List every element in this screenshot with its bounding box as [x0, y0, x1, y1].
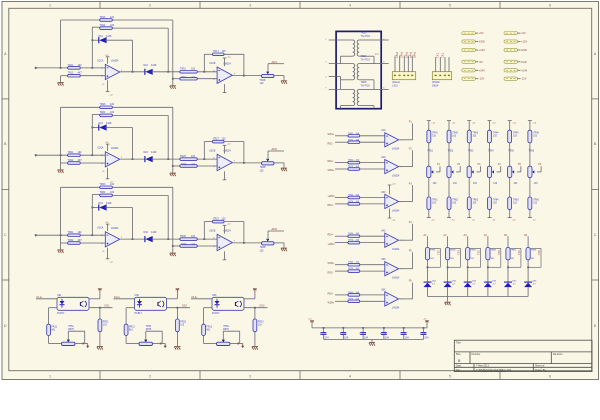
svg-text:F:\8路数据采集\转速测量仪.Ddb: F:\8路数据采集\转速测量仪.Ddb [476, 368, 512, 372]
ground [174, 346, 180, 348]
wire [222, 331, 224, 339]
svg-text:AD3: AD3 [272, 227, 278, 231]
svg-text:102: 102 [260, 169, 265, 172]
resistor PR12 [124, 324, 128, 335]
svg-text:A3: A3 [464, 233, 468, 237]
wire [509, 178, 511, 197]
wire [335, 294, 348, 296]
wire [360, 141, 385, 143]
wire [232, 242, 261, 244]
svg-text:D31: D31 [99, 202, 104, 205]
diode D86 [524, 281, 532, 283]
connector J1 pin 3 [403, 56, 405, 72]
svg-text:4K7: 4K7 [78, 159, 83, 162]
svg-text:4148: 4148 [151, 231, 157, 234]
svg-text:TR25: TR25 [180, 155, 187, 158]
resistor TR84 [486, 248, 490, 260]
power port -5V [462, 60, 476, 63]
wire [153, 343, 166, 345]
resistor TR33 [100, 186, 113, 189]
power +12V pin [224, 58, 226, 66]
wire [132, 40, 134, 72]
resistor TR16 [180, 77, 198, 80]
wire [360, 270, 385, 272]
wire [412, 283, 414, 299]
wire [197, 71, 217, 73]
wire [373, 80, 375, 90]
wire [105, 39, 132, 41]
svg-text:TP61: TP61 [68, 326, 74, 328]
svg-text:TR55: TR55 [508, 151, 514, 153]
optocoupler U91 phototransistor [85, 301, 87, 307]
svg-text:DL2+: DL2+ [114, 296, 121, 299]
wire [340, 56, 342, 63]
svg-text:C701: C701 [320, 332, 327, 335]
svg-text:-5V: -5V [479, 60, 483, 64]
diode D21 [92, 127, 99, 129]
wire [335, 270, 348, 272]
wire [112, 106, 172, 108]
connector J2 [432, 72, 451, 80]
wire [340, 80, 342, 90]
svg-text:TR16: TR16 [181, 76, 187, 78]
resistor TR62 [348, 161, 360, 164]
wire [254, 332, 256, 347]
svg-text:2: 2 [149, 375, 151, 379]
svg-text:U92: U92 [135, 294, 140, 297]
wire [335, 135, 348, 137]
diode D12 [144, 69, 146, 75]
wire [167, 307, 191, 309]
optocoupler U93 phototransistor [240, 301, 242, 307]
svg-text:B: B [594, 142, 596, 146]
svg-text:+24V: +24V [479, 68, 485, 72]
svg-text:C705: C705 [400, 332, 407, 335]
ground [58, 249, 64, 251]
svg-text:103: 103 [222, 50, 227, 53]
svg-text:U4C: U4C [381, 230, 386, 233]
wire [203, 222, 205, 240]
optocoupler U93 LED [215, 301, 220, 304]
resistor TR66 [348, 294, 360, 297]
wire [173, 245, 180, 247]
svg-text:D21: D21 [99, 122, 104, 125]
resistor PR22 [176, 319, 180, 332]
node [507, 266, 509, 268]
wire [112, 27, 168, 29]
wire [427, 260, 429, 282]
diode D11 [92, 39, 99, 41]
wire [527, 236, 529, 247]
svg-text:RD6-: RD6- [328, 292, 334, 295]
svg-text:331: 331 [517, 250, 521, 255]
svg-text:TR63: TR63 [473, 199, 479, 201]
power -12V pin [389, 209, 391, 218]
svg-text:+5VA: +5VA [521, 68, 527, 72]
capacitor C701 [323, 328, 325, 333]
svg-text:5: 5 [449, 4, 451, 8]
power +5V pin [254, 288, 256, 291]
connector J1 pin 2 [399, 56, 401, 72]
wire [203, 142, 205, 160]
wire [517, 171, 521, 173]
power -12V pin [107, 248, 109, 259]
transformer TR23 pin 4 wire [374, 39, 389, 41]
resistor TR44 [488, 130, 492, 143]
node [487, 266, 489, 268]
wire [447, 287, 449, 297]
svg-text:4K7: 4K7 [78, 239, 83, 242]
ground [281, 80, 287, 82]
node J3C [132, 238, 134, 240]
svg-text:DS2: DS2 [182, 305, 187, 308]
resistor TR43 [467, 130, 471, 143]
power -12V stub [509, 210, 511, 218]
power +12V pin [224, 145, 226, 153]
svg-text:A6: A6 [524, 233, 528, 237]
resistor TR46 [528, 130, 532, 143]
wire [61, 75, 68, 77]
svg-text:PC817: PC817 [57, 312, 65, 315]
wire [335, 168, 348, 170]
wire [80, 154, 105, 156]
svg-text:TP62: TP62 [146, 326, 152, 328]
wire [487, 236, 489, 247]
power +12V pin [389, 185, 391, 194]
node J2F [172, 165, 174, 167]
wire [360, 168, 385, 170]
transformer TR24 pin 1 wire [329, 63, 353, 65]
svg-text:TR85: TR85 [511, 249, 517, 251]
power port -12V [504, 77, 518, 80]
wire [60, 20, 62, 68]
svg-text:LM324: LM324 [111, 227, 119, 230]
resistor TR32 [68, 242, 81, 245]
wire [151, 71, 179, 73]
svg-text:102: 102 [260, 82, 265, 85]
svg-text:TR45: TR45 [513, 133, 519, 135]
power -12V pin [224, 251, 226, 259]
svg-text:WD2+: WD2+ [328, 169, 336, 172]
wire [399, 298, 413, 300]
resistor TR73 [348, 203, 360, 206]
node J1D [167, 71, 169, 73]
svg-text:4148: 4148 [106, 202, 112, 205]
op-amp U6C [385, 292, 399, 306]
wire [61, 186, 100, 188]
transformer TR25 pin 4 wire [374, 88, 389, 90]
node J2C [132, 158, 134, 160]
svg-text:103: 103 [191, 68, 196, 71]
resistor TR36 [180, 245, 198, 248]
svg-text:TR12: TR12 [68, 72, 75, 75]
svg-text:AD2: AD2 [272, 147, 278, 151]
svg-text:U1CA: U1CA [97, 59, 104, 62]
svg-text:R675: R675 [146, 329, 152, 331]
resistor PR11 [47, 324, 51, 335]
resistor TR23 [100, 106, 113, 109]
op-amp U2B [217, 154, 232, 170]
ground [58, 169, 64, 171]
svg-text:DL1+: DL1+ [37, 296, 44, 299]
svg-text:D12: D12 [144, 64, 149, 67]
wire [448, 178, 450, 197]
svg-text:104: 104 [424, 336, 429, 339]
power +5V pin [176, 288, 178, 291]
wire [360, 294, 385, 296]
node J3A [60, 234, 62, 236]
wire [204, 141, 212, 143]
power +12V pin [107, 144, 109, 151]
optocoupler U92 phototransistor [162, 301, 164, 307]
svg-text:PR13: PR13 [206, 327, 212, 329]
power +12V pin [107, 57, 109, 64]
power +12V pin [224, 225, 226, 233]
wire [468, 143, 470, 166]
capacitor C705 [403, 328, 405, 333]
svg-text:TR22: TR22 [68, 159, 75, 162]
resistor TR71 [348, 141, 360, 144]
transformer TR23 pin 1 wire [329, 39, 353, 41]
resistor TR76 [348, 300, 360, 303]
svg-text:104: 104 [344, 336, 349, 339]
resistor PR13 [202, 324, 206, 335]
svg-text:U3CB: U3CB [209, 230, 216, 233]
svg-text:TR43: TR43 [473, 133, 479, 135]
wire [114, 298, 135, 300]
svg-text:TR41: TR41 [432, 133, 438, 135]
capacitor C81 [430, 247, 441, 249]
capacitor C84 [490, 247, 501, 249]
svg-text:WD1+: WD1+ [328, 133, 336, 136]
ground [172, 172, 174, 174]
svg-text:4148: 4148 [106, 122, 112, 125]
wire [335, 162, 348, 164]
svg-text:103: 103 [110, 103, 115, 106]
svg-text:6: 6 [549, 4, 551, 8]
wire [120, 238, 145, 240]
optocoupler U92 LED [137, 301, 142, 304]
svg-text:TR44: TR44 [493, 133, 499, 135]
svg-text:4148: 4148 [151, 64, 157, 67]
svg-text:RD3-: RD3- [328, 204, 334, 207]
svg-text:TR71: TR71 [348, 139, 354, 141]
svg-text:5: 5 [449, 375, 451, 379]
resistor TR82 [446, 248, 450, 260]
resistor TR45 [508, 130, 512, 143]
connector J2 pin 3 [444, 57, 446, 72]
wire [167, 115, 169, 159]
wire [243, 54, 245, 75]
wire [80, 67, 105, 69]
power +5V pin [99, 288, 101, 291]
node J3B [91, 234, 93, 236]
svg-text:+12V: +12V [479, 48, 485, 52]
wire [340, 106, 342, 109]
svg-text:102: 102 [260, 249, 265, 252]
svg-text:Number: Number [472, 353, 481, 356]
svg-text:TR83: TR83 [470, 249, 476, 251]
svg-text:TR33: TR33 [100, 183, 107, 186]
input pin IN1 [36, 67, 68, 69]
svg-text:102: 102 [78, 231, 83, 234]
wire [92, 26, 99, 28]
svg-text:PW4: PW4 [408, 52, 412, 59]
capacitor C82 [450, 247, 461, 249]
svg-text:RD1-: RD1- [328, 142, 334, 145]
wire [427, 236, 429, 247]
wire [176, 332, 178, 347]
wire [399, 139, 413, 141]
wire [239, 331, 241, 343]
node J3G [243, 242, 245, 244]
resistor TR75 [348, 270, 360, 273]
wire [412, 150, 414, 166]
wire [274, 75, 284, 77]
ground [281, 247, 287, 249]
svg-text:331: 331 [477, 250, 481, 255]
node J3F [172, 245, 174, 247]
node [467, 266, 469, 268]
resistor TR11 [68, 67, 81, 70]
wire [399, 201, 413, 203]
svg-text:4148: 4148 [151, 151, 157, 154]
svg-text:103: 103 [110, 111, 115, 114]
wire [145, 331, 147, 339]
svg-text:TR35: TR35 [180, 235, 187, 238]
transformer TR25 secondary winding [357, 89, 359, 105]
svg-text:TR25: TR25 [361, 81, 368, 84]
capacitor C85 [510, 247, 521, 249]
resistor TR14 [100, 27, 113, 30]
resistor TR66 [528, 197, 532, 210]
wire [197, 165, 217, 167]
svg-text:TR24: TR24 [100, 111, 107, 114]
svg-text:TR76: TR76 [348, 298, 354, 300]
optocoupler U91 LED [60, 301, 65, 304]
power +12V stub [428, 121, 430, 131]
wire [335, 235, 348, 237]
wire [105, 127, 132, 129]
wire [489, 143, 491, 166]
wire [360, 203, 385, 205]
svg-text:TR86: TR86 [531, 249, 537, 251]
node [237, 343, 239, 345]
wire [112, 19, 172, 21]
wire [204, 307, 212, 309]
svg-text:TR42: TR42 [452, 133, 458, 135]
transformer TR25 pin 1 wire [329, 88, 353, 90]
power +12V stub [468, 121, 470, 131]
wire [126, 307, 134, 309]
node J3D [167, 238, 169, 240]
wire [507, 236, 509, 247]
node J1B [91, 67, 93, 69]
svg-text:U3CA: U3CA [97, 227, 104, 230]
wire [203, 336, 205, 344]
svg-text:LM324: LM324 [392, 248, 400, 251]
resistor TR15 [180, 71, 198, 74]
svg-text:104: 104 [385, 336, 390, 339]
svg-text:1: 1 [49, 4, 51, 8]
wire [360, 242, 385, 244]
resistor TR65 [348, 263, 360, 266]
power port +12V [504, 40, 518, 43]
wire [399, 268, 413, 270]
svg-text:103: 103 [110, 24, 115, 27]
node [177, 307, 179, 309]
svg-text:Date:: Date: [456, 365, 462, 368]
wire [268, 150, 284, 152]
wire [428, 143, 430, 166]
svg-text:103: 103 [222, 217, 227, 220]
power -12V pin [224, 84, 226, 92]
wire [412, 123, 414, 139]
capacitor C703 [362, 328, 364, 333]
potentiometer TP63 [217, 342, 231, 345]
potentiometer TR53 [467, 166, 471, 177]
svg-text:TR37: TR37 [213, 217, 220, 220]
node [160, 343, 162, 345]
svg-text:-12V: -12V [521, 77, 527, 81]
wire [80, 162, 105, 164]
wire [399, 239, 413, 241]
wire [36, 298, 57, 300]
wire [244, 307, 268, 309]
wire [61, 242, 68, 244]
wire [467, 260, 469, 282]
wire [360, 300, 385, 302]
svg-text:PR12: PR12 [129, 327, 135, 329]
svg-text:TS-4733: TS-4733 [361, 59, 371, 62]
wire [335, 264, 348, 266]
potentiometer TR18 [262, 74, 275, 77]
power +12V stub [489, 121, 491, 131]
transformer pin wire [329, 76, 341, 78]
wire [360, 135, 385, 137]
wire [507, 260, 509, 282]
power port +5VA [504, 69, 518, 72]
node [254, 307, 256, 309]
resistor TR34 [100, 194, 113, 197]
input pin IN3 [36, 234, 68, 236]
power -12V stub [448, 210, 450, 218]
power port +5V [462, 32, 476, 35]
wire [167, 195, 169, 239]
wire [92, 114, 99, 116]
svg-text:TR74: TR74 [348, 240, 354, 242]
power +12V stub [529, 121, 531, 131]
resistor TR24 [100, 114, 113, 117]
wire [274, 242, 284, 244]
svg-text:TR73: TR73 [348, 201, 354, 203]
wire [61, 162, 68, 164]
wire [61, 106, 100, 108]
wire [67, 331, 69, 339]
svg-text:PR23: PR23 [258, 322, 264, 324]
svg-text:C704: C704 [380, 332, 387, 335]
svg-text:331: 331 [497, 250, 501, 255]
wire [161, 331, 163, 343]
diode D22 [144, 156, 146, 162]
svg-text:A4: A4 [484, 233, 488, 237]
wire [89, 307, 113, 309]
svg-text:TR75: TR75 [348, 268, 354, 270]
power -12V stub [489, 210, 491, 218]
wire [335, 203, 348, 205]
svg-text:L913: L913 [392, 84, 398, 87]
transformer TR23 primary winding [353, 40, 355, 56]
